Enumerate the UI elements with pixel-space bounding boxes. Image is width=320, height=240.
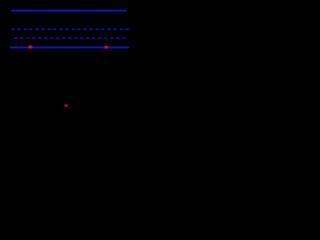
bottom solid blue line [10, 46, 129, 48]
red marker dot 1 on bottom line [29, 46, 32, 49]
dashed blue line row 1 [11, 28, 130, 30]
dashed blue line row 2 [14, 37, 126, 39]
red marker dot 2 on bottom line [105, 46, 108, 49]
top solid blue line [11, 10, 126, 12]
red marker dot lower area [65, 104, 68, 107]
background [0, 0, 143, 132]
